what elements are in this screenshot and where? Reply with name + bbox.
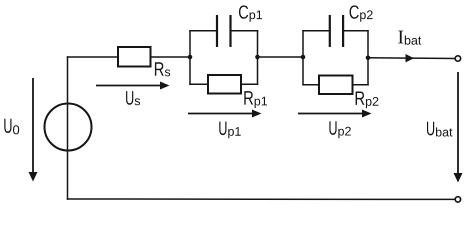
node A junction dot <box>188 55 193 60</box>
wire RC1 bottom-right lead <box>241 83 258 85</box>
label Up2 <box>329 121 350 138</box>
voltage source U0 <box>45 104 92 151</box>
label U0 <box>4 119 19 135</box>
label Cp1 <box>239 5 262 21</box>
node B junction dot <box>255 55 260 60</box>
label Rp1 <box>244 91 267 108</box>
node C junction dot <box>301 55 306 60</box>
label Ibat <box>398 31 421 45</box>
wire top middle segment <box>258 56 304 58</box>
wire RC1 right vertical <box>257 31 259 85</box>
wire RC1 left vertical <box>189 31 191 85</box>
label Rp2 <box>356 91 379 108</box>
wire RC2 bottom-right lead <box>353 84 369 86</box>
RC pair 1 frame <box>190 31 258 85</box>
arrow Ibat current arrowhead <box>406 54 415 62</box>
wire RC2 right vertical <box>367 31 369 85</box>
label Rs <box>155 62 170 76</box>
arrow Up1 <box>188 110 262 118</box>
wire RC2 cap top-right lead <box>343 30 368 32</box>
wire RC1 cap top-right lead <box>231 30 258 32</box>
arrow Us <box>96 82 170 90</box>
capacitor Cp1 <box>217 15 231 47</box>
wire RC1 bottom-left lead <box>190 83 208 85</box>
arrow Ubat <box>454 72 463 183</box>
RC pair 2 frame <box>303 31 368 85</box>
wire RC2 cap top-left lead <box>303 30 329 32</box>
terminal bottom-right <box>455 197 460 202</box>
wire top right segment <box>368 57 455 60</box>
label Up1 <box>219 121 240 138</box>
terminal top-right <box>455 56 460 61</box>
wire top left segment <box>68 56 191 58</box>
arrow U0 <box>29 78 38 182</box>
resistor Rs <box>118 47 151 67</box>
capacitor Cp2 <box>330 15 343 47</box>
resistor Rp1 <box>208 75 241 94</box>
label Us <box>126 91 140 105</box>
arrow Up2 <box>298 110 372 118</box>
node D junction dot <box>366 56 371 61</box>
label Cp2 <box>350 5 373 21</box>
wire left vertical <box>67 57 69 199</box>
wire RC2 left vertical <box>302 31 304 85</box>
label Ubat <box>427 122 452 137</box>
wire RC1 cap top-left lead <box>190 30 217 32</box>
wire bottom horizontal <box>68 198 456 200</box>
wire RC2 bottom-left lead <box>303 84 319 86</box>
resistor Rp2 <box>319 76 353 95</box>
